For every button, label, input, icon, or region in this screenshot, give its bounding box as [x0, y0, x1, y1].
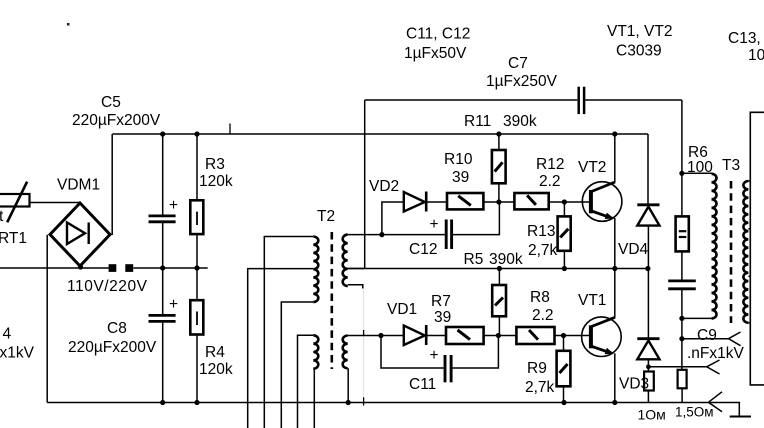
junction R10 R11 C12 node	[496, 199, 501, 204]
wire remnant tick at bottom rail	[363, 397, 365, 405]
capacitor C11	[381, 336, 498, 394]
svg-text:VT2: VT2	[578, 159, 606, 176]
junction VD2 C12 node	[379, 232, 384, 237]
wire C9 line	[682, 338, 729, 340]
svg-text:T2: T2	[317, 208, 335, 225]
capacitor C7	[365, 55, 682, 114]
wire R5 row rail	[348, 268, 648, 270]
diode VD1	[387, 301, 446, 345]
junction bridge bottom vertex	[78, 264, 83, 269]
transistor VT2	[578, 134, 622, 269]
svg-text:2.2: 2.2	[532, 307, 554, 324]
svg-text:+: +	[169, 197, 178, 214]
transistor VT1	[578, 269, 621, 403]
resistor R6	[676, 144, 714, 280]
junction VD3 bottom	[646, 364, 651, 369]
junction T3 primary bottom	[679, 316, 684, 321]
transformer T3 primary winding	[712, 174, 717, 319]
svg-text:t: t	[0, 208, 4, 225]
capacitor C8	[68, 268, 178, 403]
svg-text:VT1: VT1	[578, 292, 606, 309]
svg-text:R5: R5	[464, 251, 484, 268]
junction R6 top	[679, 171, 684, 176]
wire VD3 junction to arrow	[648, 366, 706, 368]
wire T2 feedback upper bottom tap remnant	[348, 285, 363, 289]
svg-text:R3: R3	[205, 156, 225, 173]
resistor R9	[525, 336, 570, 403]
svg-text:.nFx1kV: .nFx1kV	[687, 345, 745, 362]
svg-text:C13, C: C13, C	[728, 30, 764, 47]
junction VD1 C11 node	[378, 333, 383, 338]
transformer T3 core	[730, 181, 733, 323]
junction R13 top	[562, 199, 567, 204]
svg-text:2.2: 2.2	[539, 173, 561, 190]
svg-text:C5: C5	[101, 94, 121, 111]
svg-text:R8: R8	[530, 289, 550, 306]
svg-text:R9: R9	[527, 360, 547, 377]
resistor 1.5 Ohm	[675, 339, 714, 420]
wire VD1 row from T2	[348, 335, 404, 337]
svg-text:100: 100	[748, 47, 764, 64]
switch 110V/220V	[67, 264, 148, 295]
capacitor C12	[382, 204, 500, 258]
svg-text:+: +	[430, 216, 439, 233]
transformer T2 primary winding lower	[313, 335, 318, 368]
svg-text:4: 4	[3, 326, 12, 343]
resistor R3	[190, 134, 233, 268]
wire T3 secondary taps	[748, 180, 750, 182]
wire C7 right vertical to R6	[681, 100, 683, 173]
junction R7 R5 C11 node	[496, 333, 501, 338]
junction R9 top	[561, 333, 566, 338]
diode VD4	[618, 134, 660, 269]
svg-text:C9: C9	[697, 327, 717, 344]
connector arrow C9	[729, 332, 741, 346]
svg-text:R11: R11	[464, 113, 491, 130]
svg-text:VDM1: VDM1	[57, 177, 100, 194]
svg-text:C12: C12	[409, 241, 437, 258]
svg-text:120k: 120k	[199, 173, 233, 190]
junction R5 rail dots	[497, 266, 502, 271]
wire AC input left	[0, 267, 109, 269]
svg-text:RT1: RT1	[0, 230, 27, 247]
wire T2 primary lower taps	[298, 335, 314, 428]
wire bottom rail	[47, 403, 739, 417]
thermistor RT1	[0, 182, 30, 247]
svg-text:2,7k: 2,7k	[528, 242, 558, 259]
capacitor C5	[72, 94, 178, 268]
wire DC plus vertical	[111, 134, 113, 235]
svg-text:1µFx50V: 1µFx50V	[404, 45, 467, 62]
resistor 1 Ohm	[638, 372, 666, 423]
wire DC minus vertical	[46, 235, 48, 403]
svg-text:C11, C12: C11, C12	[406, 26, 470, 43]
resistor R4	[190, 268, 233, 403]
svg-text:R12: R12	[536, 156, 564, 173]
svg-text:R10: R10	[444, 151, 473, 168]
svg-text:x1kV: x1kV	[0, 345, 35, 362]
capacitor below R6	[668, 281, 696, 339]
ground bar	[730, 416, 751, 418]
resistor R13	[527, 202, 571, 269]
svg-text:1Ом: 1Ом	[638, 407, 666, 423]
connector arrow middle	[707, 360, 720, 374]
svg-text:390k: 390k	[503, 113, 537, 130]
wire stub artifact on rail	[229, 124, 231, 135]
svg-text:C3039: C3039	[616, 43, 662, 60]
junction bottom rail dots	[160, 400, 165, 405]
svg-text:R7: R7	[431, 293, 451, 310]
svg-text:R4: R4	[205, 344, 225, 361]
wire C7 left vertical to T2 mid tap	[364, 100, 366, 269]
svg-text:C11: C11	[409, 376, 436, 393]
svg-text:R13: R13	[527, 223, 555, 240]
junction top rail dots	[160, 131, 165, 136]
wire T2 feedback lower bottom lead	[347, 368, 349, 402]
artifact dot	[67, 23, 70, 26]
svg-text:390k: 390k	[489, 251, 523, 268]
svg-text:VD4: VD4	[618, 241, 649, 258]
svg-text:C8: C8	[107, 320, 127, 337]
svg-text:C7: C7	[508, 55, 528, 72]
svg-text:VD1: VD1	[387, 301, 417, 318]
svg-text:+: +	[430, 347, 439, 364]
svg-text:39: 39	[434, 309, 451, 326]
diode VD3	[619, 269, 660, 393]
svg-text:1,5Ом: 1,5Ом	[675, 405, 714, 420]
transformer T2 feedback winding lower	[343, 336, 348, 369]
wire switch to cap midpoint	[133, 267, 208, 269]
resistor R12	[514, 156, 589, 209]
wire top rail	[113, 133, 649, 135]
junction R3 R4 midpoint	[194, 265, 199, 270]
transformer T2 core	[330, 232, 333, 369]
svg-text:+: +	[169, 296, 178, 313]
transformer T2 feedback winding upper	[343, 235, 348, 286]
wire T2 primary upper taps	[264, 237, 313, 428]
junction C5 C8 midpoint	[160, 265, 165, 270]
wire T2 feedback mid tap	[348, 268, 365, 270]
resistor R5	[464, 251, 523, 334]
svg-text:VT1, VT2: VT1, VT2	[607, 23, 672, 40]
svg-text:2,7k: 2,7k	[525, 379, 555, 396]
bridge rectifier VDM1	[50, 177, 110, 267]
diode VD2	[369, 178, 447, 212]
load frame	[750, 112, 764, 385]
wire ghost remnant	[363, 289, 365, 396]
wire remnant tick above VD1 row	[363, 330, 365, 336]
svg-text:39: 39	[452, 169, 469, 186]
wire T3 primary bottom tap	[682, 317, 712, 319]
wire RT1 to bridge top vertex	[30, 202, 81, 204]
svg-text:1µFx250V: 1µFx250V	[486, 73, 558, 90]
svg-text:VD2: VD2	[369, 178, 399, 195]
resistor R7	[431, 293, 516, 344]
wire T2 feedback upper top tap	[348, 234, 382, 236]
wire VD2 input corner	[382, 202, 404, 235]
junction C9 line	[679, 336, 684, 341]
resistor R10	[444, 151, 514, 209]
svg-text:220µFx200V: 220µFx200V	[72, 112, 161, 129]
connector arrow on bottom rail	[708, 392, 722, 412]
svg-text:T3: T3	[722, 157, 740, 174]
svg-text:110V/220V: 110V/220V	[67, 278, 148, 295]
resistor R11	[464, 113, 537, 202]
svg-text:120k: 120k	[199, 361, 233, 378]
svg-text:220µFx200V: 220µFx200V	[68, 339, 157, 356]
transformer T3 secondary winding	[743, 181, 748, 323]
wire R6 node to T3 primary top	[682, 172, 712, 174]
resistor R8	[516, 289, 589, 344]
transformer T2 primary winding upper	[313, 237, 318, 303]
